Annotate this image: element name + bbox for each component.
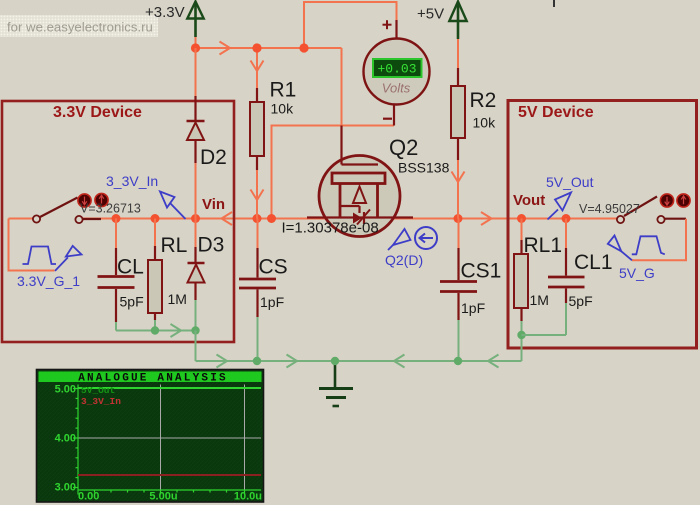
power +3.3V arrow symbol <box>187 2 203 38</box>
node RL bottom junction <box>151 326 159 334</box>
probe 5V_Out arrow <box>548 193 572 220</box>
svg-text:1pF: 1pF <box>260 294 284 310</box>
wire ground bus up into box2 <box>521 335 523 361</box>
graph gridlines <box>78 385 261 491</box>
svg-text:Volts: Volts <box>382 81 411 96</box>
svg-text:V=3.26713: V=3.26713 <box>80 202 141 216</box>
svg-text:RL1: RL1 <box>524 234 563 257</box>
svg-text:3_3V_In: 3_3V_In <box>81 396 121 407</box>
wire 3.3V rail down to D2 <box>195 48 197 96</box>
wire generator1 loop <box>9 219 55 271</box>
node D3 top junction <box>191 214 200 223</box>
wire +3.3V stem <box>195 37 197 48</box>
generator 3.3V_G_1 icon <box>23 247 57 265</box>
wire R1 bottom to bus <box>256 170 258 219</box>
switch SW2 toggle buttons <box>660 194 690 207</box>
box 5V Device <box>508 101 697 349</box>
svg-text:3.3V_G_1: 3.3V_G_1 <box>17 273 80 289</box>
svg-text:+0.03: +0.03 <box>377 62 416 77</box>
node CL top junction <box>112 214 121 223</box>
wire rail arrow right <box>220 42 231 55</box>
switch SW1 <box>33 198 101 224</box>
svg-text:RL: RL <box>161 234 188 257</box>
box 3.3V Device <box>2 101 234 342</box>
node voltmeter plus junction <box>299 43 308 52</box>
svg-text:Q2(D): Q2(D) <box>385 252 423 268</box>
svg-text:CL: CL <box>117 256 144 279</box>
wire arrow down below R2 <box>452 172 465 183</box>
wire green arrow right <box>171 324 182 337</box>
wire voltmeter minus to Vin bus <box>272 126 395 219</box>
svg-text:5V Device: 5V Device <box>518 104 594 121</box>
svg-text:10k: 10k <box>271 101 295 117</box>
svg-text:V=4.95027: V=4.95027 <box>579 202 640 216</box>
svg-text:D2: D2 <box>200 146 227 169</box>
node RL top junction <box>151 214 160 223</box>
svg-text:5pF: 5pF <box>569 293 593 309</box>
ground <box>319 361 353 406</box>
top edge tick <box>553 0 555 7</box>
svg-text:3_3V_In: 3_3V_In <box>106 173 158 189</box>
graph trace 5V_Out <box>78 387 261 389</box>
capacitor CL1 <box>548 219 585 304</box>
wire voltmeter plus branch <box>304 2 397 48</box>
svg-text:5.00u: 5.00u <box>149 491 177 503</box>
wire ground bus arrow left 2 <box>488 355 499 368</box>
svg-text:CS1: CS1 <box>461 260 502 283</box>
wire main Vin/Vout bus <box>82 218 617 220</box>
svg-text:CS: CS <box>259 256 288 279</box>
wire bus arrow right toward 5V device <box>481 212 492 225</box>
node RL1 bottom junction <box>517 331 525 339</box>
svg-text:5.00: 5.00 <box>55 384 76 396</box>
graph trace 3_3V_In <box>78 474 261 476</box>
wire RL bottom green <box>154 320 156 331</box>
svg-text:3.00: 3.00 <box>55 482 76 494</box>
node CL1 top junction <box>562 214 571 223</box>
wire RL1 bottom green <box>521 321 523 335</box>
generator 5V_G arrow <box>608 236 632 261</box>
generator 5V_G icon <box>632 236 665 254</box>
node CS ground junction <box>253 357 261 365</box>
node CS1 ground junction <box>454 357 462 365</box>
svg-text:10.0u: 10.0u <box>234 491 262 503</box>
voltmeter U1 <box>364 20 430 126</box>
wire arrow down into R1 <box>251 61 264 72</box>
svg-text:3.3V Device: 3.3V Device <box>53 104 142 121</box>
resistor R2 <box>451 68 465 160</box>
resistor RL1 <box>514 219 528 322</box>
wire bus arrow left toward 3.3V device <box>222 212 233 225</box>
svg-text:Q2: Q2 <box>389 135 418 160</box>
node ground junction <box>331 357 339 365</box>
wire R1 top branch <box>256 48 258 88</box>
watermark strip <box>0 15 158 37</box>
node +3.3V junction <box>191 43 200 52</box>
node R1-CS junction <box>253 214 262 223</box>
current probe circle <box>415 227 437 249</box>
wire D2 anode to bus <box>195 163 197 219</box>
node D3 anode junction <box>191 326 199 334</box>
wire switch1 left stub <box>9 218 34 220</box>
capacitor CL <box>98 219 135 323</box>
svg-text:4.00: 4.00 <box>55 433 76 445</box>
capacitor CS <box>239 219 276 318</box>
wire CL1 bottom green <box>565 303 567 335</box>
svg-text:R1: R1 <box>270 79 297 102</box>
capacitor CS1 <box>440 219 477 321</box>
wire ground bus arrow right 1 <box>217 355 228 368</box>
wire ground bus arrow left 1 <box>394 355 405 368</box>
wire gate branch down <box>341 48 343 126</box>
probe Q2(D) arrow <box>388 229 411 250</box>
wire green RL1 to CL1 <box>522 334 567 336</box>
diode D3 <box>188 219 205 301</box>
svg-text:5V_Out: 5V_Out <box>546 174 594 190</box>
wire +5V to R2 <box>457 39 459 68</box>
svg-text:ANALOGUE ANALYSIS: ANALOGUE ANALYSIS <box>78 373 228 385</box>
svg-text:Vout: Vout <box>513 192 545 209</box>
wire main ground bus <box>196 360 522 362</box>
switch SW1 toggle buttons <box>78 193 108 207</box>
svg-text:1M: 1M <box>168 291 187 307</box>
resistor R1 <box>250 88 264 170</box>
svg-text:5pF: 5pF <box>120 294 144 310</box>
svg-text:BSS138: BSS138 <box>398 160 450 176</box>
svg-text:0.00: 0.00 <box>78 491 99 503</box>
wire green down to ground bus <box>195 331 197 362</box>
power +5V arrow symbol <box>449 2 466 40</box>
node RL1 top junction <box>517 214 526 223</box>
graph axes <box>73 385 261 495</box>
wire ground bus arrow right 2 <box>287 355 298 368</box>
svg-text:Vin: Vin <box>202 196 225 213</box>
svg-text:5V_G: 5V_G <box>619 265 655 281</box>
svg-text:1M: 1M <box>530 292 549 308</box>
probe 3_3V_In arrow <box>160 192 186 220</box>
svg-text:CL1: CL1 <box>574 251 613 274</box>
graph axis labels <box>55 384 262 503</box>
node R1 top junction <box>252 43 261 52</box>
wire arrow down below R1 <box>251 190 264 201</box>
wire top rail 3.3V <box>196 47 342 49</box>
svg-text:1pF: 1pF <box>461 300 485 316</box>
node R2 bottom junction <box>454 214 463 223</box>
svg-text:+5V: +5V <box>417 6 444 23</box>
graph window ANALOGUE ANALYSIS <box>37 370 264 503</box>
wire R2 bottom to bus <box>457 160 459 219</box>
svg-text:+3.3V: +3.3V <box>145 4 185 21</box>
wire CS1 bottom green <box>458 320 460 361</box>
svg-text:for we.easyelectronics.ru: for we.easyelectronics.ru <box>7 20 153 35</box>
resistor RL <box>148 219 162 321</box>
svg-text:R2: R2 <box>470 89 497 112</box>
wire CS bottom green <box>257 317 259 361</box>
wire CL bottom green <box>115 322 117 331</box>
svg-text:I=1.30378e-08: I=1.30378e-08 <box>282 220 379 237</box>
diode D2 <box>187 96 205 163</box>
wire green inside box1 <box>116 330 196 332</box>
transistor Q2 <box>307 126 413 237</box>
svg-text:10k: 10k <box>473 115 497 131</box>
svg-text:5V_Out: 5V_Out <box>81 385 115 396</box>
svg-text:D3: D3 <box>198 234 225 257</box>
wire D3 anode green <box>195 300 197 331</box>
node voltmeter minus junction <box>267 214 276 223</box>
switch SW2 <box>617 197 686 224</box>
wire generator2 loop <box>632 219 686 261</box>
generator 3.3V_G_1 arrow <box>55 246 82 271</box>
